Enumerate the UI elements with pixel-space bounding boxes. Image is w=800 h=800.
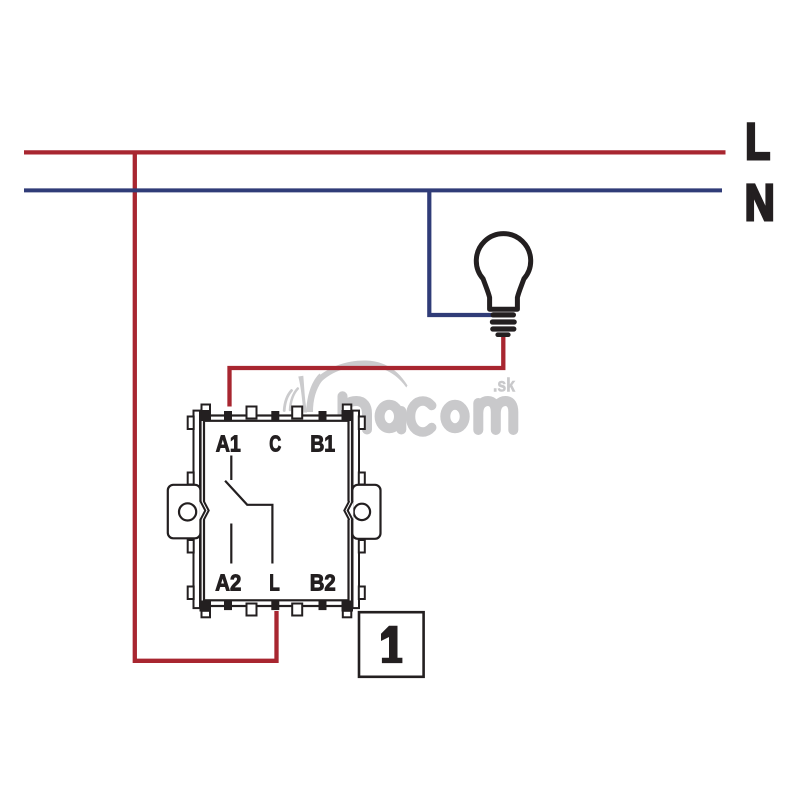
switch contact: A2 lead [230, 524, 232, 564]
terminal tab A2 bottom [224, 600, 232, 610]
left side tab 1 [188, 417, 194, 430]
outer frame [201, 416, 353, 607]
wire N rail (blue) [24, 188, 722, 192]
top white tab left [247, 407, 257, 419]
right side tab 2 [359, 473, 365, 485]
wire blue: N rail down and right to lamp base [429, 189, 492, 316]
left claw chevron [199, 502, 205, 520]
left side tab 3 [188, 540, 194, 553]
svg-text:.sk: .sk [493, 376, 515, 397]
left ear screw hole [179, 503, 196, 520]
watermark hacom logo swoosh [298, 360, 407, 412]
svg-text:L: L [269, 569, 280, 595]
terminal tab B1 top [319, 411, 327, 421]
right ear screw hole [354, 504, 370, 520]
left side tab 4 [188, 587, 194, 600]
svg-text:B1: B1 [310, 430, 335, 456]
terminal tab B2 bottom [319, 600, 327, 610]
right claw plate [353, 411, 360, 608]
corner cap top-left [202, 405, 211, 412]
corner cap bottom-left [202, 611, 211, 618]
left claw plate [194, 411, 201, 608]
left side tab 2 [188, 473, 194, 485]
svg-text:C: C [269, 430, 281, 456]
terminal tab L bottom [271, 600, 279, 610]
corner tab bottom-left [200, 601, 212, 612]
watermark hacom logo leaf strokes [284, 389, 298, 411]
svg-text:N: N [745, 174, 775, 231]
bottom white tab left [247, 604, 257, 616]
wire red: lamp base down to junction then left and down to switch terminal A1 [230, 335, 504, 407]
corner tab bottom-right [342, 601, 354, 612]
terminal tab C top [271, 411, 279, 421]
right claw chevron [347, 502, 353, 520]
svg-text:A1: A1 [216, 430, 241, 456]
inner frame [204, 421, 349, 601]
lamp screw base thread 1 [491, 312, 517, 317]
lamp base bottom contact [495, 332, 510, 337]
unit number box [359, 612, 424, 677]
watermark hacom text (rounded hand-drawn letters) [343, 396, 514, 432]
right mounting ear [352, 485, 380, 539]
switch contact: A1 lead [230, 456, 232, 481]
switch mechanism S1 [168, 405, 381, 618]
right side tab 4 [359, 587, 365, 600]
svg-text:B2: B2 [310, 569, 336, 595]
unit number 1 digit [381, 626, 402, 663]
left mounting ear [168, 485, 201, 539]
wire L rail (red) [24, 150, 726, 154]
corner tab top-right [342, 410, 354, 421]
switch contact: blade and bridge to L [225, 481, 272, 564]
top white tab right [292, 407, 302, 419]
lamp screw base thread 3 [490, 326, 516, 331]
svg-text:A2: A2 [215, 569, 241, 595]
right side tab 1 [359, 417, 365, 430]
terminal tab A1 top [224, 411, 232, 421]
lamp bulb globe E1 [476, 234, 530, 310]
corner cap bottom-right [343, 611, 352, 618]
lamp screw base thread 2 [490, 319, 517, 324]
wire red: L rail down, along bottom, up to switch terminal L [135, 151, 277, 661]
right side tab 3 [359, 540, 365, 553]
corner tab top-left [200, 410, 212, 421]
corner cap top-right [343, 405, 352, 412]
svg-text:L: L [745, 113, 770, 170]
bottom white tab right [292, 604, 302, 616]
